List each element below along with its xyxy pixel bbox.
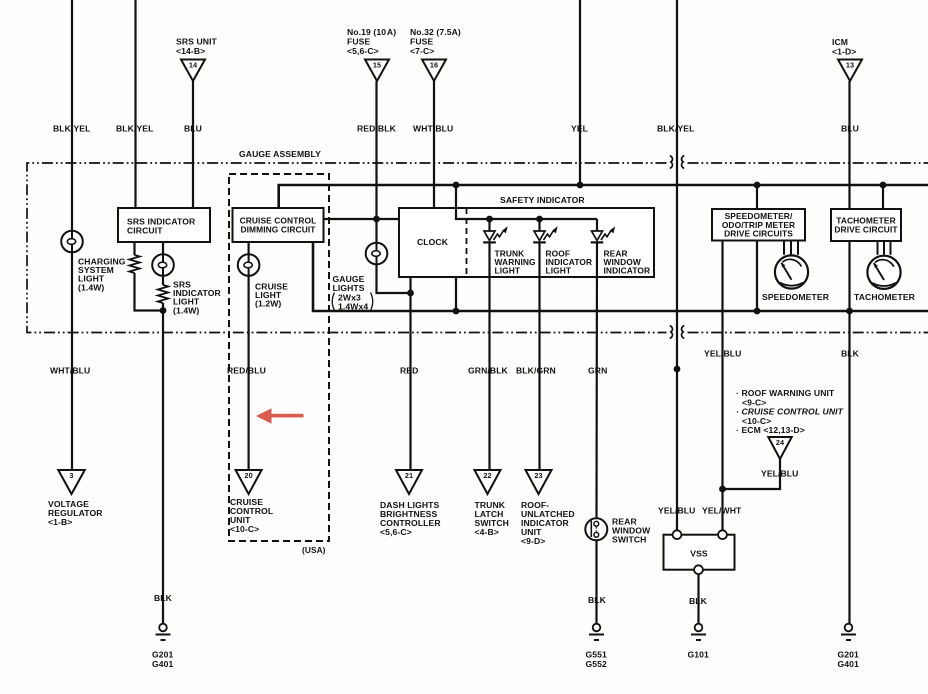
- svg-text:RED/BLU: RED/BLU: [227, 366, 266, 376]
- svg-text:DIMMING CIRCUIT: DIMMING CIRCUIT: [240, 225, 316, 235]
- label No.19 (10A) FUSE &lt;5,6-C&gt;: [347, 27, 396, 56]
- wire dimming box to cruise light bulb: [248, 242, 250, 254]
- wire BLU from ICM to tachometer box: [848, 81, 850, 209]
- svg-text:VSS: VSS: [690, 549, 708, 559]
- rear window switch: [585, 518, 607, 540]
- svg-text:GRN/BLK: GRN/BLK: [468, 366, 509, 376]
- ground G101: [688, 624, 710, 660]
- cruise light bulb: [238, 254, 260, 276]
- resistor (SRS circuit left): [129, 255, 139, 273]
- wire splice to connector 24: [723, 459, 781, 489]
- gauge assembly boundary (dash-dot): [27, 163, 667, 333]
- bus wire (lower return): [313, 242, 928, 311]
- splice on YEL/BLU wire: [674, 366, 681, 373]
- svg-text:SPEEDOMETER: SPEEDOMETER: [762, 292, 830, 302]
- wire BLK/YEL to charging light, continues as WHT/BLU: [71, 0, 73, 470]
- speedometer / odo / trip meter drive circuits box: [712, 209, 805, 241]
- speedometer gauge: [775, 255, 808, 288]
- svg-text:GAUGE ASSEMBLY: GAUGE ASSEMBLY: [239, 149, 321, 159]
- connector 3 to voltage regulator: [58, 470, 85, 494]
- junction gauge lights to RED wire: [407, 290, 414, 297]
- connector 23 to roof unlatched indicator unit: [526, 470, 552, 494]
- LED roof indicator light: [533, 219, 558, 242]
- svg-text:<5,6-C>: <5,6-C>: [347, 46, 379, 56]
- label REAR WINDOW SWITCH: [612, 517, 651, 545]
- svg-text:BLK/YEL: BLK/YEL: [53, 124, 90, 134]
- connector 15 fuse No.19: [365, 60, 389, 82]
- junction bus to LED feed: [453, 182, 460, 189]
- svg-text:13: 13: [846, 61, 854, 70]
- SRS indicator light bulb: [152, 254, 174, 276]
- LED rear window indicator: [591, 219, 616, 242]
- svg-text:22: 22: [483, 471, 491, 480]
- svg-text:· ECM <12,13-D>: · ECM <12,13-D>: [736, 425, 805, 435]
- svg-text:BLK: BLK: [689, 596, 708, 606]
- svg-text:21: 21: [405, 471, 413, 480]
- ground G551 G552: [586, 624, 608, 669]
- svg-text:WHT/BLU: WHT/BLU: [50, 366, 90, 376]
- wire dimming box right edge to clock box: [324, 218, 400, 220]
- label SRS INDICATOR LIGHT (1.4W): [173, 280, 222, 316]
- svg-text:(USA): (USA): [302, 545, 326, 555]
- label ICM &lt;1-D&gt;: [832, 37, 856, 57]
- junction LED bus at trunk warning light: [486, 216, 493, 223]
- label ROOF INDICATOR LIGHT: [546, 249, 593, 276]
- svg-text:1.4Wx4: 1.4Wx4: [338, 302, 368, 312]
- label SRS INDICATOR CIRCUIT: [127, 217, 196, 236]
- svg-text:20: 20: [244, 471, 252, 480]
- wire RED clock to dash lights controller: [409, 277, 411, 471]
- svg-text:No.32 (7.5A): No.32 (7.5A): [410, 27, 461, 37]
- wire LED feed into safety indicator: [456, 185, 597, 219]
- wire YEL from top to bus: [579, 0, 581, 185]
- bus wire (upper power feed): [279, 185, 928, 208]
- svg-text:G101: G101: [688, 650, 710, 660]
- svg-text:CIRCUIT: CIRCUIT: [127, 226, 163, 236]
- svg-text:YEL/WHT: YEL/WHT: [702, 506, 742, 516]
- svg-text:CLOCK: CLOCK: [417, 237, 449, 247]
- wire resistor to junction: [135, 273, 164, 311]
- svg-text:RED/BLK: RED/BLK: [357, 124, 397, 134]
- speedometer drive ticks: [784, 241, 798, 255]
- wire WHT/BLU from fuse 16: [433, 81, 435, 208]
- svg-text:DRIVE CIRCUIT: DRIVE CIRCUIT: [834, 225, 898, 235]
- VSS box: [664, 530, 735, 574]
- clock and safety indicator outer box: [399, 208, 654, 277]
- label GAUGE LIGHTS (2Wx3 1.4Wx4): [332, 274, 373, 312]
- svg-text:BLU: BLU: [184, 124, 202, 134]
- svg-text:3: 3: [69, 471, 73, 480]
- tachometer drive circuit box: [831, 209, 901, 241]
- junction clock ground at lower bus: [453, 308, 460, 315]
- svg-text:24: 24: [776, 438, 785, 447]
- wire gauge bulb to RED wire junction: [377, 264, 411, 293]
- ground G201 G401 (left): [152, 624, 174, 669]
- svg-text:YEL/BLU: YEL/BLU: [761, 469, 798, 479]
- wire from SRS box to resistor R-left: [133, 242, 135, 255]
- label ROOF-UNLATCHED INDICATOR UNIT &lt;9-D&gt;: [521, 500, 575, 546]
- tachometer gauge: [867, 256, 900, 289]
- junction RED/BLK at gauge light feed: [373, 216, 380, 223]
- svg-text:<5,6-C>: <5,6-C>: [380, 527, 412, 537]
- boundary break marks at BLK/YEL wire (bottom): [670, 326, 684, 339]
- label CHARGING SYSTEM LIGHT (1.4W): [78, 257, 126, 293]
- label SRS UNIT: [176, 37, 218, 47]
- svg-text:G201: G201: [838, 650, 860, 660]
- svg-text:YEL: YEL: [571, 124, 588, 134]
- svg-text:G551: G551: [586, 650, 608, 660]
- svg-text:<9-D>: <9-D>: [521, 536, 545, 546]
- red highlight arrow: [256, 408, 304, 423]
- svg-text:<1-D>: <1-D>: [832, 47, 856, 57]
- splice speed signal to units: [719, 486, 726, 493]
- svg-text:G401: G401: [838, 659, 860, 669]
- svg-text:23: 23: [534, 471, 542, 480]
- label No.32 (7.5A) FUSE &lt;7-C&gt;: [410, 27, 461, 56]
- wire GRN/BLK to trunk latch switch: [488, 242, 490, 470]
- SRS indicator circuit box: [118, 208, 210, 242]
- wire RED/BLU cruise light to connector 20: [248, 276, 250, 471]
- dashed divider between clock and safety indicator: [466, 208, 468, 277]
- wire YEL/BLU speedometer to VSS splice: [721, 241, 723, 531]
- svg-text:RED: RED: [400, 366, 418, 376]
- connector 22 to trunk latch switch: [475, 470, 501, 494]
- wire BLK rear window switch to ground: [595, 540, 597, 623]
- svg-text:WHT/BLU: WHT/BLU: [413, 124, 453, 134]
- svg-text:BLK: BLK: [588, 595, 607, 605]
- LED trunk warning light: [483, 219, 508, 242]
- svg-text:SWITCH: SWITCH: [612, 535, 647, 545]
- label TRUNK LATCH SWITCH &lt;4-B&gt;: [475, 500, 510, 537]
- wire BLK/YEL continuing as YEL/BLU to VSS: [676, 0, 678, 530]
- svg-text:BLU: BLU: [841, 124, 859, 134]
- connector 16 fuse No.32: [422, 60, 446, 82]
- junction bus to speedometer box: [754, 182, 761, 189]
- svg-text:LIGHT: LIGHT: [546, 265, 572, 275]
- svg-text:(1.4W): (1.4W): [173, 305, 199, 315]
- svg-text:G401: G401: [152, 659, 174, 669]
- label CRUISE LIGHT (1.2W): [255, 282, 288, 309]
- svg-text:(1.2W): (1.2W): [255, 299, 281, 309]
- svg-text:BLK/GRN: BLK/GRN: [516, 366, 556, 376]
- svg-text:LIGHT: LIGHT: [495, 265, 521, 275]
- junction YEL at bus: [577, 182, 584, 189]
- svg-text:G552: G552: [586, 659, 608, 669]
- svg-text:YEL/BLU: YEL/BLU: [704, 349, 741, 359]
- gauge lights bulb: [366, 243, 388, 265]
- svg-text:SRS UNIT: SRS UNIT: [176, 37, 218, 47]
- wire speedometer box to lower bus: [756, 241, 758, 312]
- svg-text:No.19 (10 A): No.19 (10 A): [347, 27, 396, 37]
- cruise control dimming circuit box: [233, 208, 324, 242]
- wire resistor to ground junction: [162, 303, 164, 624]
- wire BLK/YEL to SRS indicator circuit: [134, 0, 136, 208]
- svg-text:G201: G201: [152, 650, 174, 660]
- junction LED bus at roof indicator light: [536, 216, 543, 223]
- svg-text:TACHOMETER: TACHOMETER: [854, 292, 916, 302]
- connector 24 to roof warning / cruise / ECM: [768, 437, 792, 459]
- label TRUNK WARNING LIGHT: [495, 249, 536, 276]
- svg-text:<7-C>: <7-C>: [410, 46, 434, 56]
- svg-text:LIGHTS: LIGHTS: [333, 283, 365, 293]
- connector 14 from SRS unit: [181, 60, 205, 82]
- label VOLTAGE REGULATOR &lt;1-B&gt;: [48, 499, 103, 527]
- svg-text:15: 15: [373, 61, 381, 70]
- dashed (USA) option box: [229, 174, 329, 541]
- wire clock ground to lower bus: [455, 277, 457, 311]
- charging system light bulb: [61, 231, 83, 253]
- svg-text:BLK: BLK: [154, 593, 173, 603]
- wire bus to speedometer box: [756, 185, 758, 209]
- svg-text:FUSE: FUSE: [410, 37, 433, 47]
- connector 13 from ICM: [838, 60, 862, 82]
- svg-text:BLK/YEL: BLK/YEL: [657, 124, 694, 134]
- svg-text:ICM: ICM: [832, 37, 848, 47]
- connector 21 to dash lights brightness controller: [396, 470, 422, 494]
- junction bus to tachometer box: [880, 182, 887, 189]
- junction speedometer at lower bus: [754, 308, 761, 315]
- junction SRS ground node: [160, 307, 167, 314]
- wire bus to tachometer box: [882, 185, 884, 209]
- svg-text:DRIVE CIRCUITS: DRIVE CIRCUITS: [724, 229, 793, 239]
- wire GRN to rear window switch: [595, 242, 598, 518]
- svg-text:FUSE: FUSE: [347, 37, 370, 47]
- ground G201 G401 (right): [838, 624, 860, 669]
- wire tachometer box to lower bus, continues BLK to ground: [848, 241, 850, 624]
- svg-text:<10-C>: <10-C>: [230, 524, 259, 534]
- svg-text:BLK: BLK: [841, 349, 860, 359]
- svg-text:14: 14: [189, 61, 198, 70]
- svg-text:YEL/BLU: YEL/BLU: [658, 506, 695, 516]
- label DASH LIGHTS BRIGHTNESS CONTROLLER &lt;5,6-C&gt;: [380, 500, 441, 537]
- referenced units list: [736, 388, 844, 435]
- svg-text:<4-B>: <4-B>: [475, 527, 499, 537]
- wire BLU from connector 14: [192, 81, 194, 208]
- boundary break marks at BLK/YEL wire (top): [670, 156, 684, 169]
- wire SRS box to SRS bulb: [162, 242, 164, 254]
- junction tachometer at lower bus: [846, 308, 853, 315]
- svg-text:BLK/YEL: BLK/YEL: [116, 124, 153, 134]
- wire SRS bulb to resistor: [162, 276, 164, 285]
- wire BLK VSS to ground: [697, 574, 699, 624]
- resistor (below SRS bulb): [158, 285, 168, 303]
- svg-text:16: 16: [430, 61, 438, 70]
- svg-text:INDICATOR: INDICATOR: [604, 265, 651, 275]
- wire BLK/GRN to roof unlatched indicator unit: [538, 242, 540, 470]
- svg-text:(1.4W): (1.4W): [78, 282, 104, 292]
- svg-text:<14-B>: <14-B>: [176, 46, 205, 56]
- tachometer drive ticks: [878, 241, 891, 255]
- wire RED/BLK from fuse 15: [375, 81, 377, 243]
- label CRUISE CONTROL UNIT &lt;10-C&gt;: [230, 497, 273, 534]
- connector 20 to cruise control unit: [236, 470, 262, 494]
- svg-text:SAFETY INDICATOR: SAFETY INDICATOR: [500, 195, 585, 205]
- label REAR WINDOW INDICATOR: [604, 249, 651, 276]
- svg-text:GRN: GRN: [588, 366, 607, 376]
- svg-text:<1-B>: <1-B>: [48, 517, 72, 527]
